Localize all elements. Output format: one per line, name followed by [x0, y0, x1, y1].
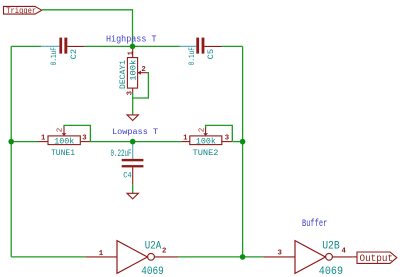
- svg-text:100k: 100k: [54, 136, 74, 146]
- junction bottom right rail: [240, 254, 246, 260]
- svg-text:4069: 4069: [141, 266, 164, 277]
- wire DECAY1 pin3 to ground: [132, 93, 134, 115]
- wire U2B out to Output label: [353, 256, 357, 258]
- wire left rail: [10, 46, 12, 257]
- wire C2 to junction to C5: [85, 45, 180, 47]
- svg-text:Output: Output: [360, 254, 394, 265]
- wire C4 to ground: [132, 184, 134, 193]
- svg-text:3: 3: [225, 134, 230, 142]
- inverter U2B: [263, 240, 353, 277]
- svg-text:2: 2: [162, 247, 166, 255]
- svg-text:3: 3: [82, 134, 87, 142]
- svg-text:Highpass T: Highpass T: [106, 35, 157, 45]
- capacitor C5: [180, 38, 222, 66]
- hierarchical label Trigger: [4, 6, 42, 16]
- wire TUNE1 wiper loop: [64, 125, 90, 141]
- svg-text:4069: 4069: [319, 266, 343, 277]
- junction at Highpass node: [130, 44, 136, 50]
- inverter U2A: [85, 241, 178, 277]
- wire left rail to TUNE1: [11, 141, 38, 143]
- wire bottom rail: [11, 256, 85, 258]
- svg-text:1: 1: [41, 134, 46, 142]
- svg-text:Buffer: Buffer: [302, 218, 327, 230]
- svg-text:1: 1: [99, 250, 104, 258]
- junction C4 node: [130, 139, 136, 145]
- svg-text:C5: C5: [206, 49, 216, 60]
- svg-text:DECAY1: DECAY1: [118, 60, 128, 89]
- svg-text:1: 1: [127, 50, 135, 55]
- svg-text:C2: C2: [69, 49, 79, 60]
- svg-text:TUNE1: TUNE1: [51, 149, 75, 158]
- wire right rail: [242, 46, 244, 257]
- capacitor C4: [111, 142, 144, 185]
- svg-text:U2B: U2B: [322, 240, 340, 252]
- svg-text:TUNE2: TUNE2: [193, 149, 219, 158]
- svg-text:0.1uF: 0.1uF: [51, 47, 59, 65]
- svg-text:2: 2: [141, 66, 145, 74]
- wire left rail top segment: [11, 45, 41, 47]
- ground below DECAY1: [127, 115, 138, 121]
- junction left rail: [8, 139, 14, 145]
- svg-text:3: 3: [127, 90, 135, 95]
- svg-text:100k: 100k: [129, 60, 139, 81]
- svg-text:2: 2: [57, 128, 65, 133]
- svg-text:1: 1: [183, 134, 188, 142]
- wire DECAY1 wiper loop: [133, 73, 149, 98]
- potentiometer TUNE1: [38, 127, 91, 158]
- wire U2A out to U2B in: [179, 256, 263, 258]
- svg-text:C4: C4: [123, 172, 132, 181]
- svg-text:3: 3: [278, 250, 283, 258]
- potentiometer TUNE2: [181, 127, 232, 158]
- svg-text:0.1uF: 0.1uF: [189, 47, 197, 65]
- junction right rail at TUNE2: [240, 139, 246, 145]
- svg-text:0.22uF: 0.22uF: [111, 148, 132, 159]
- svg-text:4: 4: [342, 247, 347, 255]
- svg-text:Lowpass T: Lowpass T: [112, 127, 158, 137]
- svg-text:2: 2: [198, 128, 206, 133]
- hierarchical label Output: [357, 252, 397, 265]
- wire Trigger to junction: [42, 10, 133, 47]
- svg-text:U2A: U2A: [145, 241, 162, 253]
- wire TUNE1 to C4 junction to TUNE2: [91, 141, 181, 143]
- ground below C4: [127, 193, 138, 199]
- svg-text:Trigger: Trigger: [6, 6, 36, 16]
- wire TUNE2 pin3 to right rail: [233, 141, 243, 143]
- potentiometer DECAY1: [118, 46, 148, 95]
- wire TUNE2 wiper loop: [206, 125, 233, 141]
- wire C5 to right rail corner: [222, 45, 243, 47]
- capacitor C2: [41, 38, 84, 66]
- svg-text:100k: 100k: [196, 136, 216, 146]
